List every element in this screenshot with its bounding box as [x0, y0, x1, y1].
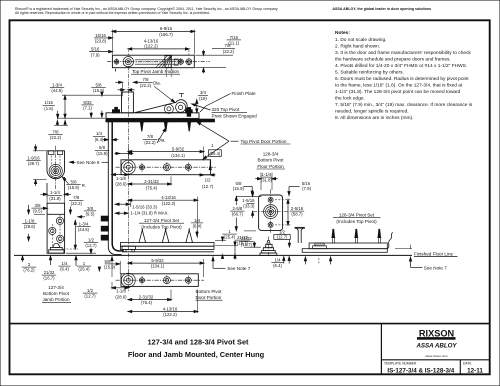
svg-text:(122.2): (122.2)	[144, 44, 158, 49]
E hole centerlines	[52, 215, 60, 246]
svg-text:2-5/16: 2-5/16	[291, 206, 304, 211]
B dim 1/4	[93, 131, 118, 142]
J pivot housing	[313, 243, 327, 249]
drawing title line 1	[147, 338, 249, 347]
G plate outline	[121, 274, 198, 287]
svg-text:5/8: 5/8	[99, 145, 106, 150]
svg-text:(122.2): (122.2)	[163, 312, 177, 317]
svg-text:(Includes Top Pivot): (Includes Top Pivot)	[141, 224, 182, 229]
svg-text:Finish Plate: Finish Plate	[232, 91, 256, 96]
A dim 6-9/16 ext lines	[112, 30, 194, 55]
svg-text:(15.9): (15.9)	[96, 151, 108, 156]
svg-text:(15.9): (15.9)	[104, 264, 116, 269]
H dim 1-5/16	[237, 190, 262, 218]
svg-text:1/4: 1/4	[275, 258, 282, 263]
D dim 1-9/16	[26, 144, 46, 186]
E hole bottom	[57, 235, 64, 242]
H dim 21/32	[235, 235, 249, 246]
E pivot base	[49, 243, 64, 253]
svg-text:3/4: 3/4	[200, 90, 207, 95]
svg-text:Bottom Pivot: Bottom Pivot	[43, 291, 70, 296]
svg-text:1-9/16: 1-9/16	[27, 155, 40, 160]
svg-text:128-3/4 Pivot Set: 128-3/4 Pivot Set	[339, 212, 375, 217]
svg-text:7. 5/16" (7.9) min., 3/4" (19): 7. 5/16" (7.9) min., 3/4" (19) max. clea…	[335, 102, 473, 108]
svg-text:(44.5): (44.5)	[51, 88, 63, 93]
C plate outline	[121, 160, 211, 175]
A dim 6-9/16	[112, 26, 194, 37]
svg-text:Bottom Pivot: Bottom Pivot	[257, 158, 284, 163]
svg-text:ASSA ABLOY, the global leader: ASSA ABLOY, the global leader in door op…	[332, 7, 431, 11]
C dim 2-31/32	[128, 177, 171, 191]
svg-text:(28.6): (28.6)	[115, 182, 127, 187]
C pivot hub	[121, 160, 135, 174]
svg-text:8. All dimensions are in inche: 8. All dimensions are in inches (mm).	[335, 115, 413, 121]
B finish plate label	[232, 91, 256, 96]
H dim 1/2 boxed	[274, 229, 291, 246]
E dim 3 below	[22, 256, 37, 272]
H dim 1-1/4	[255, 172, 278, 190]
svg-text:(22.2): (22.2)	[140, 83, 152, 88]
B dim 9/32	[81, 100, 93, 117]
G label	[196, 289, 223, 300]
svg-text:6. Doors must be radiused. Rad: 6. Doors must be radiused. Radius is det…	[335, 76, 469, 82]
C hole 3	[185, 163, 191, 172]
svg-text:Notes:: Notes:	[335, 30, 350, 36]
D centerline	[55, 146, 57, 190]
svg-text:to the frame, less 1/16" (1.6): to the frame, less 1/16" (1.6). On the 1…	[335, 83, 463, 89]
svg-text:(23.8): (23.8)	[95, 38, 107, 43]
svg-text:1-3/4: 1-3/4	[52, 82, 62, 87]
C centerline	[116, 166, 217, 168]
F door edge inner	[112, 122, 123, 251]
svg-text:4-13/16: 4-13/16	[161, 195, 176, 200]
copyright line 2	[15, 11, 210, 15]
svg-text:21/32: 21/32	[237, 235, 248, 240]
template/date divider	[459, 360, 461, 375]
svg-text:7/16: 7/16	[230, 35, 239, 40]
svg-text:2-31/32: 2-31/32	[144, 179, 159, 184]
svg-text:(22.2): (22.2)	[144, 140, 156, 145]
J break squiggle	[387, 232, 393, 248]
J floor plate	[302, 243, 387, 252]
B 320 label	[212, 107, 258, 118]
svg-text:3. It is the door and frame ma: 3. It is the door and frame manufacturer…	[335, 50, 471, 56]
svg-text:ASSA ABLOY: ASSA ABLOY	[415, 343, 457, 350]
rixson logo	[418, 329, 456, 340]
B finish plate leader	[200, 94, 231, 112]
svg-text:5-9/32: 5-9/32	[172, 146, 185, 151]
A spindle dashed lines	[166, 68, 171, 77]
svg-text:127-3/4: 127-3/4	[48, 285, 64, 290]
H centerlines	[253, 190, 289, 235]
E plate outline	[47, 177, 65, 253]
svg-text:12-11: 12-11	[467, 368, 483, 375]
A dim 7/16	[203, 35, 242, 55]
svg-text:21/32: 21/32	[44, 270, 55, 275]
B mounting screws	[139, 122, 192, 132]
svg-text:1-5/16: 1-5/16	[242, 198, 255, 203]
I below-floor arrows	[271, 257, 290, 268]
F dim 1/4	[191, 218, 203, 236]
svg-text:the hardware schedule and prep: the hardware schedule and prepare doors …	[335, 57, 451, 63]
F dim 1 right	[215, 229, 237, 259]
C dim 1 boxed	[209, 143, 222, 169]
svg-text:(166.7): (166.7)	[159, 32, 173, 37]
H dim 2-5/16	[275, 200, 304, 225]
see note 6 label	[70, 160, 108, 165]
svg-text:(25.4): (25.4)	[224, 235, 236, 240]
H hole bottom	[268, 222, 273, 227]
svg-text:15/16: 15/16	[95, 33, 106, 38]
svg-text:9/32: 9/32	[83, 100, 92, 105]
B dim 1-3/4	[50, 82, 66, 117]
A dim 7/8	[203, 43, 236, 73]
E dim 3/8 right	[78, 206, 96, 218]
B finish plate	[106, 119, 214, 122]
G centerline	[116, 279, 205, 281]
B pivot centerline	[128, 66, 130, 292]
svg-text:1-1/4 (31.8) R MAX.: 1-1/4 (31.8) R MAX.	[131, 210, 169, 215]
svg-text:1/4: 1/4	[194, 218, 201, 223]
H label	[257, 151, 286, 169]
see note 7 left leader	[212, 257, 226, 268]
J spindle	[295, 227, 305, 243]
B left ext line lower	[54, 121, 68, 126]
template number label	[384, 361, 417, 365]
E dim 7/8 right	[69, 195, 83, 213]
A pivot hole	[114, 57, 133, 67]
svg-text:1-1/8: 1-1/8	[116, 289, 126, 294]
svg-text:(16.7): (16.7)	[237, 241, 249, 246]
svg-text:1-1/4: 1-1/4	[50, 190, 60, 195]
svg-text:See Note 7: See Note 7	[424, 265, 447, 270]
assa abloy tagline	[332, 7, 431, 11]
B 320 label leader	[192, 103, 211, 110]
svg-text:See Note 6: See Note 6	[77, 160, 100, 165]
svg-text:(134.1): (134.1)	[151, 264, 165, 269]
svg-text:(39.7): (39.7)	[28, 161, 40, 166]
C dim 1/2	[199, 174, 216, 189]
F dim 1-1/4 rmax	[116, 210, 169, 215]
svg-text:(7.9): (7.9)	[302, 186, 311, 191]
A right ext lines	[195, 55, 233, 67]
E hole mid	[49, 227, 56, 234]
svg-text:320 Top Pivot: 320 Top Pivot	[212, 107, 240, 112]
svg-text:Top Pivot Door Portion: Top Pivot Door Portion	[241, 139, 287, 144]
svg-text:1/2: 1/2	[88, 237, 95, 242]
svg-text:(6.4): (6.4)	[193, 223, 202, 228]
svg-text:Dia.: Dia.	[153, 81, 161, 86]
svg-text:(122.2): (122.2)	[162, 201, 176, 206]
svg-text:(16.7): (16.7)	[43, 276, 55, 281]
svg-text:5-9/32: 5-9/32	[151, 258, 164, 263]
date value	[467, 368, 483, 375]
svg-text:(44.5): (44.5)	[78, 227, 90, 232]
F dim 4-13/16	[128, 195, 197, 238]
D dim 1-1/4	[41, 177, 71, 201]
template row line	[381, 359, 489, 361]
I pivot stack	[244, 237, 277, 257]
svg-text:3/8: 3/8	[87, 206, 94, 211]
svg-text:5/8: 5/8	[96, 82, 103, 87]
svg-text:Floor and Jamb Mounted, Center: Floor and Jamb Mounted, Center Hung	[128, 350, 265, 359]
svg-text:www.rixson.com: www.rixson.com	[425, 354, 448, 358]
svg-text:3/8: 3/8	[35, 203, 42, 208]
svg-text:Bottom Pivot: Bottom Pivot	[196, 289, 223, 294]
svg-text:(58.7): (58.7)	[291, 212, 303, 217]
svg-text:5. Suitable reinforcing by oth: 5. Suitable reinforcing by others.	[335, 70, 404, 76]
svg-text:(12.7): (12.7)	[84, 294, 96, 299]
svg-text:5/8: 5/8	[105, 259, 112, 264]
svg-text:1/16: 1/16	[45, 100, 54, 105]
svg-text:1. Do not scale drawing.: 1. Do not scale drawing.	[335, 37, 386, 43]
svg-text:1-5/16 (33.3): 1-5/16 (33.3)	[132, 205, 157, 210]
A dim 5/16	[89, 46, 112, 57]
B pivot arm	[135, 93, 190, 114]
svg-text:(6.4): (6.4)	[95, 137, 104, 142]
svg-text:DATE: DATE	[463, 361, 472, 365]
B dim 1/16	[43, 100, 59, 118]
svg-text:All rights reserved. Reproduct: All rights reserved. Reproduction in who…	[15, 11, 210, 15]
svg-text:(12.7): (12.7)	[202, 184, 214, 189]
svg-text:needed, longer spindle is requ: needed, longer spindle is required.	[335, 109, 409, 115]
C dim 5-9/32	[128, 146, 203, 160]
C hole 1	[140, 163, 145, 172]
svg-text:Door Portion: Door Portion	[196, 295, 222, 300]
svg-text:(Includes Top Pivot): (Includes Top Pivot)	[336, 219, 377, 224]
J set label	[333, 212, 381, 223]
B right bolt	[186, 108, 193, 117]
F floor screws	[139, 228, 193, 242]
D pivot rings	[49, 164, 62, 177]
J floor screws	[331, 229, 381, 243]
finished floor line	[14, 245, 412, 256]
svg-text:(12.7): (12.7)	[85, 243, 97, 248]
svg-text:7/8: 7/8	[53, 129, 60, 134]
svg-text:Floor Portion: Floor Portion	[257, 164, 284, 169]
H dim 5/8	[233, 181, 254, 194]
svg-text:7/8: 7/8	[225, 43, 232, 48]
E label	[42, 285, 71, 303]
F door edge outer	[108, 120, 121, 255]
svg-text:1-1/4" (31.8). The 128-3/4 pi: 1-1/4" (31.8). The 128-3/4 pivot point c…	[335, 89, 461, 95]
H dim 2-5/8	[230, 197, 256, 231]
see note 7 left label	[227, 266, 250, 271]
assa abloy logo	[415, 343, 457, 350]
G dim 2-31/32	[128, 290, 171, 306]
svg-text:(19): (19)	[199, 96, 207, 101]
svg-text:7/8: 7/8	[143, 77, 150, 82]
B left bolt	[113, 107, 120, 112]
G hole 2	[163, 275, 170, 285]
A dim 4-13/16	[128, 38, 189, 56]
svg-text:(9.5): (9.5)	[86, 211, 95, 216]
svg-text:the lock edge.: the lock edge.	[335, 96, 365, 102]
svg-text:(134.1): (134.1)	[171, 153, 185, 158]
B left ext line finish	[57, 117, 105, 119]
A dim 15/16	[94, 33, 112, 44]
F pivot base	[122, 246, 136, 252]
svg-text:(6.4): (6.4)	[60, 267, 69, 272]
svg-text:Top Pivot Jamb Portion: Top Pivot Jamb Portion	[132, 69, 180, 74]
C dim 1-1/8	[112, 168, 128, 187]
svg-text:(7.9): (7.9)	[91, 52, 100, 57]
svg-text:TEMPLATE NUMBER: TEMPLATE NUMBER	[384, 361, 417, 365]
svg-text:(25.4): (25.4)	[78, 267, 90, 272]
svg-text:(22.2): (22.2)	[50, 135, 62, 140]
A label	[131, 69, 180, 74]
svg-text:(7.1): (7.1)	[83, 105, 92, 110]
svg-text:Pivot Shown Engaged: Pivot Shown Engaged	[212, 114, 258, 119]
svg-text:(33.3): (33.3)	[243, 204, 255, 209]
svg-text:6-9/16: 6-9/16	[160, 26, 173, 31]
notes block	[335, 30, 473, 121]
svg-text:(66.7): (66.7)	[232, 212, 244, 217]
date label	[463, 361, 472, 365]
A screw hole 1	[178, 58, 183, 65]
H hole top	[268, 197, 273, 202]
svg-text:5/8: 5/8	[71, 179, 78, 184]
E dim 1/4 below	[58, 261, 70, 272]
svg-text:2. Right hand shown.: 2. Right hand shown.	[335, 44, 380, 50]
B dia lower	[143, 128, 167, 145]
A dia label	[138, 77, 175, 103]
svg-text:1/2: 1/2	[205, 177, 212, 182]
svg-text:(28.6): (28.6)	[24, 224, 36, 229]
svg-text:(31.8): (31.8)	[261, 178, 273, 183]
template number value	[387, 368, 454, 375]
H dim 5/16	[288, 181, 311, 195]
svg-text:(75.4): (75.4)	[141, 300, 153, 305]
svg-text:4. Pivots drilled for 1/4-20 x: 4. Pivots drilled for 1/4-20 x 3/4" FHMS…	[335, 63, 467, 69]
svg-text:1-1/8: 1-1/8	[116, 176, 126, 181]
svg-text:R.: R.	[82, 183, 86, 188]
E dim 1/2 below2	[83, 288, 97, 299]
svg-text:(76.2): (76.2)	[23, 268, 35, 273]
D body outline	[47, 151, 65, 179]
E hole top	[56, 217, 63, 224]
B dim 3/4	[196, 90, 208, 112]
F floor plate	[120, 243, 214, 252]
svg-text:(1.6): (1.6)	[44, 106, 53, 111]
svg-text:(75.4): (75.4)	[146, 186, 158, 191]
E dim 1-3/4 right	[63, 221, 91, 249]
svg-text:(12.7): (12.7)	[277, 235, 288, 240]
copyright line 1	[15, 7, 278, 11]
svg-text:See Note 7: See Note 7	[227, 266, 250, 271]
svg-text:5/16: 5/16	[91, 46, 100, 51]
B dim 5/8 upper	[91, 82, 105, 116]
svg-text:(22.2): (22.2)	[71, 201, 83, 206]
E dim 21/32 below	[42, 256, 56, 280]
svg-text:1/4: 1/4	[62, 261, 69, 266]
D top notch 1	[49, 151, 54, 165]
F dim 21/32 right	[215, 236, 254, 259]
see note 7 right leader	[410, 258, 423, 268]
F door anchors	[101, 216, 108, 240]
svg-text:7/8: 7/8	[73, 195, 80, 200]
title separator line	[10, 323, 490, 325]
svg-text:128-3/4: 128-3/4	[263, 151, 279, 156]
svg-text:(22.2): (22.2)	[223, 49, 235, 54]
G dim 1-1/8	[112, 282, 128, 299]
svg-text:1-1/4: 1-1/4	[261, 172, 271, 177]
A jamb plate outline	[112, 55, 194, 67]
E dim 1/2 right	[66, 237, 98, 253]
A centerline	[107, 61, 210, 63]
G dim 4-13/16	[128, 290, 197, 318]
svg-text:1-1/8: 1-1/8	[25, 218, 35, 223]
svg-text:(15.9): (15.9)	[233, 186, 245, 191]
svg-text:(28.6): (28.6)	[115, 294, 127, 299]
B door section	[115, 69, 140, 113]
finished floor line label	[414, 251, 458, 256]
see note 7 right label	[424, 265, 447, 270]
H pivot hub	[264, 205, 278, 219]
svg-text:1-3/4: 1-3/4	[79, 222, 89, 227]
svg-text:4-13/16: 4-13/16	[163, 306, 178, 311]
drawing title line 2	[128, 350, 265, 359]
B dim 5/8 low	[95, 145, 134, 156]
E dim 1 below	[75, 256, 91, 271]
F dim 1-5/16	[116, 200, 158, 210]
svg-text:127-3/4 and 128-3/4 Pivot Set: 127-3/4 and 128-3/4 Pivot Set	[147, 338, 249, 347]
G dim 5/8	[98, 257, 120, 277]
svg-text:(9.5): (9.5)	[33, 209, 42, 214]
B jamb plate	[106, 113, 199, 119]
G pivot hub	[121, 273, 135, 287]
svg-text:IS-127-3/4 & IS-128-3/4: IS-127-3/4 & IS-128-3/4	[387, 368, 454, 375]
B left ext line upper	[62, 94, 122, 96]
G hole 1	[140, 276, 145, 285]
C hole 2	[163, 162, 170, 172]
G dim 5-9/32	[128, 258, 203, 277]
title block divider	[380, 324, 382, 375]
svg-text:Jamb Portion: Jamb Portion	[42, 297, 70, 302]
D radius leader	[62, 177, 86, 190]
rixson url	[425, 354, 448, 358]
top pivot door portion leaders	[197, 121, 239, 160]
svg-text:(6.4): (6.4)	[273, 263, 282, 268]
svg-text:1/2: 1/2	[87, 288, 94, 293]
E dim 3/8 left	[28, 203, 47, 214]
A screw hole 2	[186, 58, 192, 66]
svg-text:127-3/4 Pivot Set: 127-3/4 Pivot Set	[144, 218, 180, 223]
svg-text:Finished Floor Line: Finished Floor Line	[414, 251, 454, 256]
A spindle block hatch	[156, 56, 178, 68]
H plate outline	[259, 195, 283, 231]
svg-text:1/4: 1/4	[96, 131, 103, 136]
E dim 1-1/8 left	[22, 214, 45, 240]
svg-text:(31.8): (31.8)	[49, 196, 61, 201]
J below-floor arrows	[304, 257, 331, 264]
B dim 7/8 low	[48, 129, 62, 140]
F set label	[139, 218, 184, 229]
top pivot door portion label	[241, 139, 291, 144]
svg-text:RIXSON: RIXSON	[419, 329, 455, 339]
svg-text:(15.9): (15.9)	[68, 185, 80, 190]
svg-text:2-31/32: 2-31/32	[139, 294, 154, 299]
G hole 3	[185, 276, 191, 285]
svg-text:2-5/8: 2-5/8	[233, 206, 243, 211]
svg-text:7/8: 7/8	[147, 134, 154, 139]
D top notch 2	[57, 151, 62, 165]
